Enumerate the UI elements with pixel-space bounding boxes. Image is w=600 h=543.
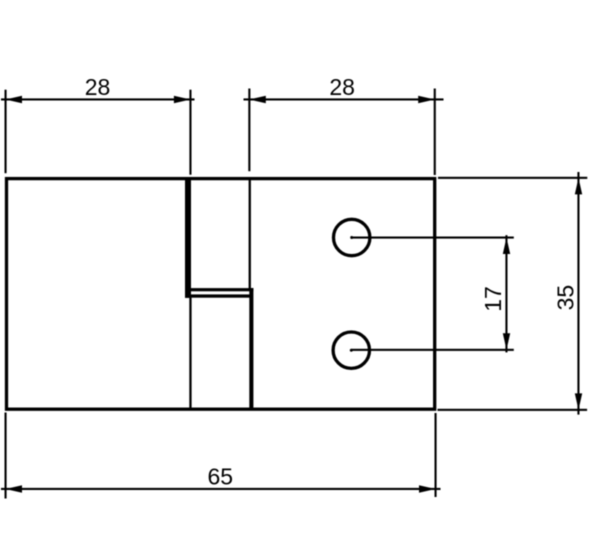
svg-text:35: 35 [553, 285, 579, 311]
svg-text:28: 28 [329, 74, 355, 100]
dim 35: dimension line [577, 172, 579, 415]
svg-text:17: 17 [480, 286, 506, 312]
hole circle top center dot [350, 236, 353, 239]
dim 35: arrow bottom [575, 393, 582, 410]
dim 28 right: arrow left [249, 96, 265, 103]
hole circle bottom [333, 332, 369, 368]
dim 28 left: extension line left [5, 90, 7, 174]
svg-text:65: 65 [208, 464, 234, 490]
dim 35: extension line top [438, 177, 587, 179]
part outline rectangle [7, 179, 435, 410]
dim 28 right: extension line right [434, 89, 436, 176]
dim 28 left: extension line right [189, 90, 191, 175]
dim 65: extension line left [5, 413, 7, 499]
dim 35: arrow top [575, 178, 582, 195]
dim 17: leader line from bottom hole [351, 349, 514, 351]
dim 28 left: dimension line [1, 98, 195, 100]
upper-right lap edge (thin) [249, 178, 251, 290]
dim 17: arrow bottom [503, 333, 510, 350]
dim 28 left: arrow left [6, 96, 23, 103]
dim 28 right: arrow right [418, 96, 435, 103]
upper-left lap edge (thick) [185, 178, 191, 298]
dim 28 right: dimension line [244, 98, 444, 100]
dim 35: extension line bottom [438, 409, 588, 411]
dim 17: dimension line [505, 235, 507, 352]
lower-right lap edge (thick) [249, 288, 253, 409]
hole circle top [334, 219, 370, 255]
lap step upper horizontal line [188, 288, 253, 291]
dim 65: arrow left [6, 485, 23, 492]
lap step lower horizontal line [185, 294, 252, 297]
dim 28 right: extension line left [248, 89, 250, 172]
lower-left lap edge (thin) [189, 298, 191, 409]
svg-text:28: 28 [85, 74, 111, 100]
dim 28 left: arrow right [174, 96, 191, 103]
dim 65: dimension line [1, 488, 441, 490]
dim 17: arrow top [503, 238, 510, 255]
dim 17: leader line from top hole [352, 237, 514, 239]
dim 65: extension line right [435, 413, 437, 497]
hole circle bottom center dot [350, 349, 353, 352]
dim 65: arrow right [419, 485, 436, 492]
